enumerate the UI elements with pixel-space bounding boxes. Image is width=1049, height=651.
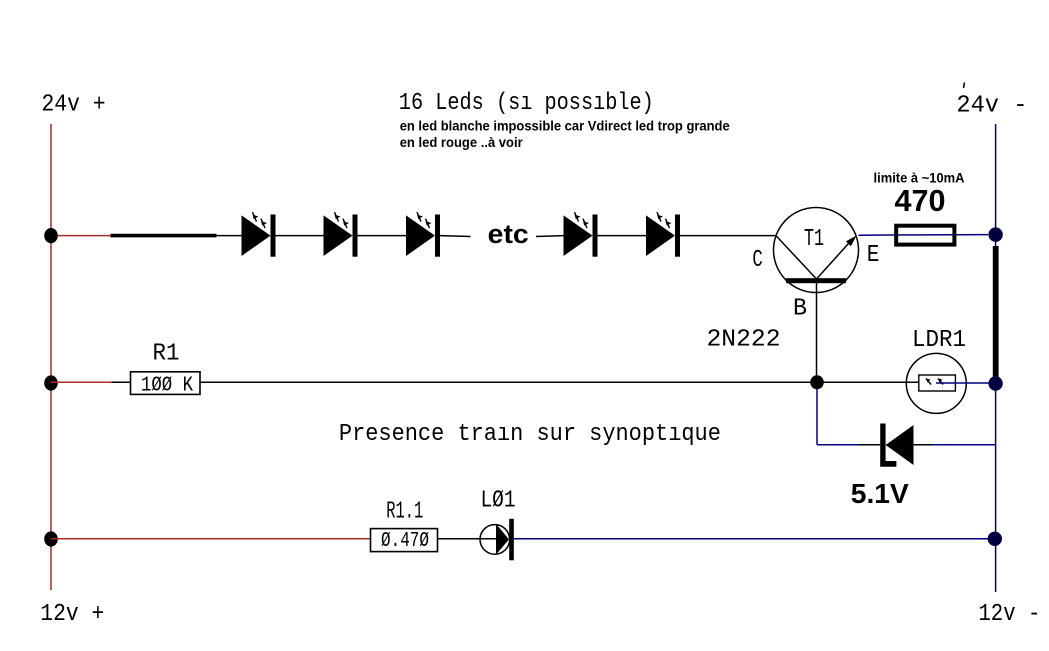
- wire row2 to R1: [111, 381, 130, 383]
- wire base T1: [816, 283, 818, 382]
- svg-text:1ØØ K: 1ØØ K: [141, 374, 193, 397]
- node left rail row1: [44, 228, 58, 243]
- node left rail row3: [44, 531, 58, 546]
- LED D1: [242, 212, 276, 257]
- svg-text:T1: T1: [804, 226, 824, 253]
- thick black wire right rail: [993, 246, 999, 378]
- node right rail row2: [988, 376, 1002, 390]
- wire junction B down (navy): [816, 389, 818, 445]
- transistor T1: [774, 208, 859, 293]
- LED D5: [646, 212, 680, 257]
- wire D3-etc: [440, 235, 471, 238]
- wire zener to right rail (navy): [931, 444, 996, 446]
- wire etc-D4: [536, 235, 564, 238]
- wire row1 to D1: [217, 235, 242, 237]
- svg-text:470: 470: [895, 183, 946, 218]
- svg-text:R1: R1: [153, 341, 180, 368]
- node right rail row3: [988, 532, 1002, 546]
- wire D2-D3: [358, 235, 407, 237]
- svg-text:12v -: 12v -: [978, 601, 1040, 628]
- wire zener left (navy): [817, 444, 859, 446]
- LED D2: [324, 212, 358, 257]
- svg-text:12v +: 12v +: [40, 601, 104, 628]
- resistor R1.1 box: [371, 529, 438, 552]
- wire thick black row1: [111, 234, 217, 238]
- svg-text:Ø.47Ø: Ø.47Ø: [381, 530, 429, 553]
- svg-text:R1.1: R1.1: [386, 498, 423, 525]
- svg-text:Presence traın sur synoptıque: Presence traın sur synoptıque: [339, 421, 721, 448]
- svg-text:2N222: 2N222: [707, 327, 781, 354]
- LED L01: [480, 519, 514, 561]
- wire LED to right rail (navy) row3: [514, 538, 988, 540]
- node right rail row1: [988, 227, 1002, 241]
- svg-text:LØ1: LØ1: [481, 488, 516, 515]
- wire zener right stub (black): [914, 444, 932, 446]
- left power rail 24v+/12v+ (red): [50, 124, 52, 590]
- svg-text:24v +: 24v +: [42, 92, 106, 119]
- LED D4: [564, 212, 598, 257]
- LDR1: [906, 353, 966, 413]
- svg-text:en led blanche impossible car: en led blanche impossible car Vdirect le…: [400, 119, 730, 134]
- svg-text:24v -: 24v -: [956, 93, 1027, 120]
- wire red row1: [51, 235, 111, 237]
- wire red row3: [51, 538, 371, 540]
- wire LDR to right rail (navy): [936, 382, 989, 384]
- right power rail 24v-/12v- (navy): [995, 124, 997, 592]
- wire zener left stub (black): [859, 444, 881, 446]
- svg-text:B: B: [793, 295, 807, 322]
- svg-text:16 Leds (sı possıble): 16 Leds (sı possıble): [399, 90, 654, 117]
- wire D4-D5: [598, 235, 647, 237]
- zener diode 5.1V: [880, 424, 913, 467]
- svg-text:5.1V: 5.1V: [851, 478, 909, 509]
- svg-text:LDR1: LDR1: [912, 327, 966, 354]
- svg-text:C: C: [752, 247, 762, 274]
- node junction B: [810, 375, 824, 389]
- wire D1-D2: [276, 235, 324, 237]
- node left rail row2: [44, 375, 58, 390]
- svg-text:E: E: [867, 242, 880, 269]
- svg-text:en led rouge ..à voir: en led rouge ..à voir: [400, 135, 524, 150]
- wire D5-T1 collector: [680, 235, 777, 237]
- LED D3: [406, 212, 440, 257]
- wire emitter to resistor 470 (navy): [859, 234, 989, 237]
- resistor 470 (fuse box): [896, 226, 954, 245]
- svg-text:etc: etc: [488, 219, 529, 249]
- wire row2 R1 to LDR: [200, 381, 919, 383]
- wire red row2: [51, 381, 111, 383]
- tick above 24v -: [964, 83, 965, 89]
- wire R1.1 to LED L01: [438, 538, 497, 540]
- resistor R1 box: [131, 372, 201, 395]
